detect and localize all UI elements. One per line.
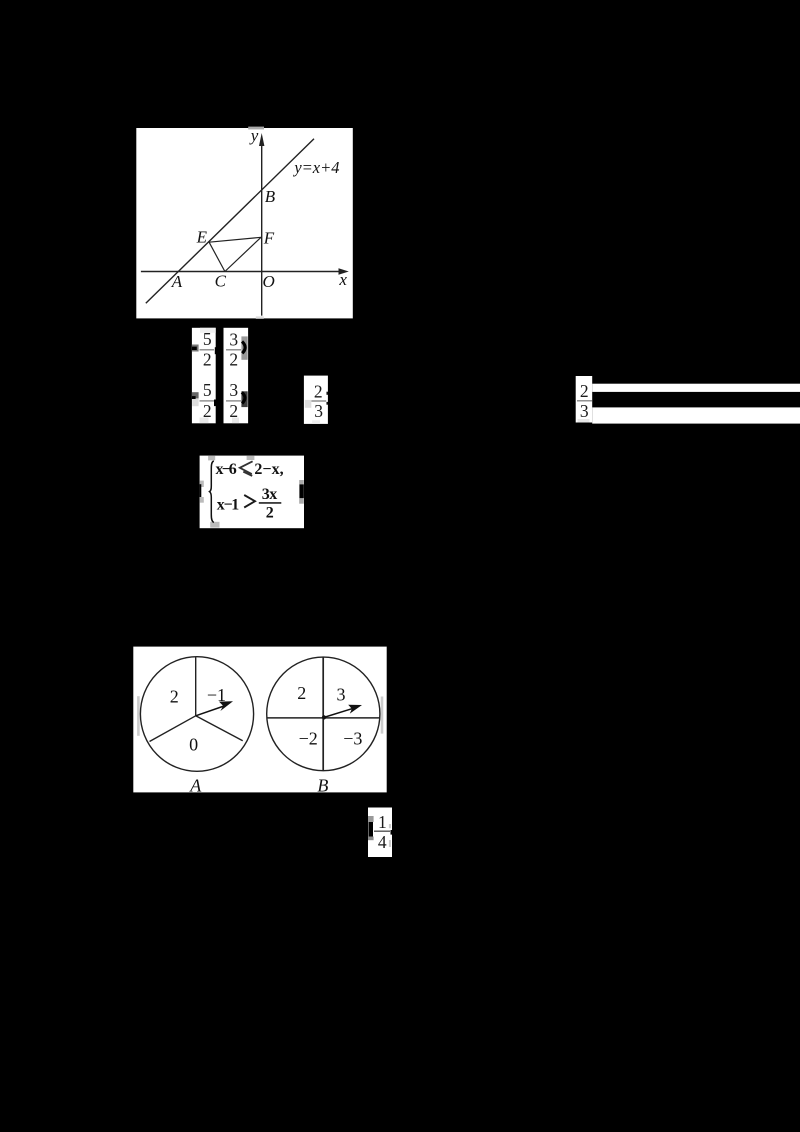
gray artifacts around 1/4 — [368, 816, 374, 822]
svg-text:x−6: x−6 — [216, 461, 237, 478]
spinner B arrow shaft — [324, 709, 352, 718]
svg-text:A: A — [189, 775, 202, 795]
svg-text:y: y — [249, 126, 259, 145]
x-axis arrowhead — [339, 268, 349, 274]
light strips artifacts on fraction boxes — [200, 328, 216, 333]
greater symbol — [244, 495, 255, 508]
fraction column 1 white box — [192, 328, 216, 424]
svg-text:−2: −2 — [299, 729, 318, 749]
black character fragment left edge — [200, 484, 202, 497]
svg-text:2: 2 — [266, 505, 274, 522]
gray bar left edge of spinner box — [137, 696, 140, 736]
svg-text:B: B — [265, 187, 276, 206]
svg-text:2−x,: 2−x, — [254, 461, 283, 478]
spinner A spoke lower-right — [196, 716, 243, 741]
svg-text:x−1: x−1 — [217, 497, 239, 514]
black character fragment left of 1/4 — [368, 822, 373, 837]
triangle side CF — [225, 237, 261, 271]
fraction 5/2 line 2 bar — [200, 400, 215, 402]
gray bar right edge of spinner box — [381, 697, 384, 734]
svg-text:2: 2 — [170, 687, 179, 707]
svg-text:3: 3 — [337, 685, 346, 705]
black character fragment right edge — [300, 484, 304, 498]
curly brace — [210, 461, 214, 523]
inequality system white box — [200, 456, 304, 529]
spinner A arrowhead — [219, 701, 233, 711]
x-axis — [141, 271, 340, 273]
triangle side EF — [209, 237, 261, 242]
second fraction 2/3 white box — [576, 376, 593, 423]
fraction 2/3 (second) bar — [577, 400, 592, 402]
svg-text:E: E — [196, 227, 208, 246]
svg-text:3: 3 — [314, 401, 323, 421]
fraction 3x/2 bar — [259, 502, 282, 504]
less-equal symbol — [240, 461, 253, 474]
spinner B hub dot — [322, 715, 326, 719]
fraction 1/4 white box — [368, 808, 392, 858]
spinner A circle — [140, 657, 253, 772]
svg-text:1: 1 — [378, 812, 387, 832]
svg-text:2: 2 — [314, 381, 323, 401]
svg-text:5: 5 — [203, 380, 212, 400]
graph figure white box — [136, 128, 352, 318]
svg-text:3x: 3x — [262, 486, 277, 503]
minus sign artifact line 1 — [192, 345, 199, 352]
spinner A arrow shaft — [196, 706, 224, 716]
svg-text:−3: −3 — [343, 729, 362, 749]
light gray artifacts on 2/3 box — [305, 400, 312, 408]
white stripe 1 to page edge — [592, 384, 800, 392]
light strip bottom of second 2/3 box — [578, 419, 590, 423]
spinner B vertical diameter — [322, 657, 324, 770]
comma artifact line 1 — [215, 347, 217, 354]
gray artifact top center of graph box — [248, 127, 264, 130]
fraction 2/3 bar — [311, 400, 326, 402]
spinner A spoke lower-left — [150, 716, 196, 742]
gray artifacts on inequality box — [208, 456, 215, 461]
svg-text:0: 0 — [189, 735, 198, 755]
svg-text:F: F — [263, 229, 275, 248]
line y=x+4 — [146, 139, 314, 303]
standalone fraction 2/3 white box (first) — [304, 376, 328, 424]
triangle side EC — [209, 242, 225, 271]
paren artifact line 2 — [241, 391, 247, 407]
black tick right edge of 1/4 box — [391, 830, 393, 835]
svg-text:2: 2 — [203, 350, 212, 370]
spinner B arrowhead — [348, 705, 362, 714]
white stripe 2 to page edge — [592, 407, 800, 423]
fraction 3/2 line 1 bar — [226, 349, 241, 351]
comma fragments right of 2/3 — [327, 392, 328, 395]
svg-text:2: 2 — [229, 350, 238, 370]
comma artifact line 2 — [214, 400, 216, 407]
svg-text:A: A — [171, 272, 183, 291]
spinners white box — [133, 647, 386, 793]
y-axis arrowhead — [259, 133, 264, 146]
svg-text:x: x — [338, 270, 347, 289]
svg-text:C: C — [215, 272, 227, 291]
minus sign artifact line 2 — [192, 392, 199, 398]
spinner A spoke up — [195, 657, 197, 716]
svg-text:y=x+4: y=x+4 — [292, 158, 339, 177]
fraction 3/2 line 2 bar — [226, 400, 241, 402]
svg-text:3: 3 — [229, 380, 238, 400]
fraction 1/4 bar — [374, 830, 390, 832]
fraction column 2 white box — [224, 328, 249, 424]
svg-text:2: 2 — [297, 683, 306, 703]
svg-text:3: 3 — [580, 401, 589, 421]
paren artifact line 1 — [241, 336, 247, 359]
svg-text:B: B — [317, 775, 328, 795]
svg-text:−1: −1 — [207, 685, 226, 705]
svg-text:3: 3 — [229, 329, 238, 349]
spinner B horizontal diameter — [267, 717, 380, 719]
gray artifact bottom center of graph box — [256, 316, 264, 318]
fraction 5/2 line 1 bar — [200, 349, 215, 351]
svg-text:4: 4 — [378, 832, 387, 852]
spinner B circle — [267, 657, 380, 771]
svg-text:O: O — [263, 272, 275, 291]
y-axis — [261, 143, 263, 316]
svg-text:2: 2 — [580, 381, 589, 401]
